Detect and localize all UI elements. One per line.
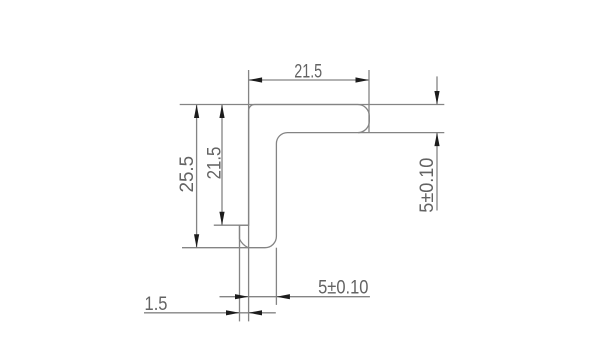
extension line: left face x=248.6 (top 21.5 dim, runs down to bottom dims) [248, 70, 250, 321]
profile outline (L-shaped extrusion cross-section) [240, 104, 370, 247]
dimension line: left 25.5 [196, 105, 198, 248]
arrowhead: 1.5 left, points right, tip x=239.5 [226, 310, 240, 315]
svg-text:25.5: 25.5 [177, 156, 198, 193]
dimension line: left 21.5 [221, 105, 223, 226]
svg-text:21.5: 21.5 [294, 60, 322, 82]
extension line: inner leg face x=276.4 down to bottom 5 dim [275, 248, 277, 305]
arrowhead: right 5±0.10 lower, points up, tip y=132.6 [434, 133, 439, 147]
dimension line: bottom 5±0.10 [220, 296, 370, 298]
dimension line: right 5±0.10 upper segment [436, 76, 438, 104]
dimension line: top 21.5 [249, 79, 369, 81]
arrowhead: bottom 5±0.10 left, points right, tip x=248.5 [235, 294, 249, 299]
svg-text:5±0.10: 5±0.10 [415, 158, 437, 213]
svg-text:1.5: 1.5 [145, 293, 168, 315]
svg-text:5±0.10: 5±0.10 [318, 276, 368, 298]
extension line: right tip x=369 for top 21.5 dim [368, 70, 370, 133]
arrowhead: left 21.5 bottom, tip y=225.2 [219, 212, 224, 226]
extension line: lower face of horizontal leg y=132.6 out to right dim [358, 132, 444, 134]
arrowhead: 25.5 bottom, tip y=247.7 [194, 234, 199, 248]
extension line: bottom face y=247.7 for 25.5 dim [182, 247, 249, 249]
arrowhead: left 21.5 top, tip y=104.5 [219, 105, 224, 119]
arrowhead: 25.5 top, tip y=104.5 [194, 105, 199, 119]
arrowhead: right 5±0.10 upper, points down, tip y=104.5 [434, 91, 439, 105]
arrowhead: top 21.5 right, tip x=369 [356, 77, 370, 82]
arrowhead: bottom 5±0.10 right, points left, tip x=276.4 [276, 294, 290, 299]
arrowhead: top 21.5 left, tip x=248.6 [249, 77, 263, 82]
extension line: top face, y=104.5, shared by left dims and right dim [180, 104, 445, 106]
dimension line: right 5±0.10 lower segment [436, 133, 438, 211]
extension line: 21.5 left dim at step y=225.2 [214, 224, 249, 226]
svg-text:21.5: 21.5 [203, 147, 224, 180]
arrowhead: 1.5 right, points left, tip x=248.5 [249, 310, 263, 315]
dimension line: bottom 1.5 [144, 312, 276, 314]
extension line: lip left face x=239.5 down to 1.5 dim [239, 225, 241, 321]
